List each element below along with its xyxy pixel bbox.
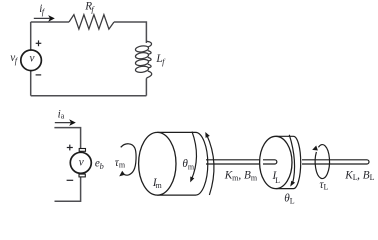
- svg-text:vf: vf: [10, 52, 19, 66]
- svg-text:KL, BL: KL, BL: [344, 169, 374, 182]
- svg-text:τm: τm: [115, 157, 126, 170]
- wire field left top: [30, 22, 32, 50]
- wire field bottom: [31, 95, 147, 97]
- wire armature bottom lead: [55, 176, 81, 201]
- svg-text:θL: θL: [284, 192, 295, 205]
- wire field right bottom: [145, 79, 147, 96]
- torque arrow tau_m: [119, 144, 136, 177]
- plus sign field: [36, 40, 42, 46]
- current arrow i_f: [34, 15, 55, 22]
- svg-text:if: if: [39, 3, 45, 17]
- svg-text:v: v: [30, 52, 35, 64]
- rotation arrow at load disc: [289, 135, 295, 187]
- svg-text:ia: ia: [58, 108, 65, 120]
- torque arrow tau_L: [312, 145, 329, 179]
- motor shaft end cap inside load: [263, 160, 277, 164]
- motor back-emf source e_b: [70, 152, 91, 173]
- load inertia disc I_L: [260, 136, 301, 188]
- angle arrow theta_m: [190, 132, 196, 183]
- motor cylinder right rim: [196, 132, 208, 195]
- minus sign field: [36, 74, 42, 76]
- load shaft K_L B_L: [302, 160, 369, 164]
- brush terminal bottom: [79, 174, 85, 177]
- svg-text:v: v: [79, 157, 84, 169]
- voltage source v_f: [21, 50, 42, 71]
- minus sign armature: [67, 179, 74, 181]
- resistor R_f: [69, 15, 114, 29]
- load disc right rim: [294, 136, 301, 188]
- wire field left bottom: [30, 71, 32, 96]
- motor inertia cylinder I_m: [139, 132, 208, 195]
- wire field top right segment: [114, 22, 146, 43]
- wire armature top lead: [54, 128, 80, 149]
- motor shaft K_m B_m: [206, 160, 277, 164]
- svg-text:τL: τL: [320, 179, 329, 191]
- svg-text:Rf: Rf: [84, 1, 95, 15]
- plus sign armature: [67, 145, 73, 151]
- rotation arrow at motor shaft: [205, 132, 214, 195]
- svg-text:Lf: Lf: [155, 53, 166, 67]
- current arrow i_a: [55, 119, 76, 126]
- wire field top left segment: [31, 21, 69, 23]
- svg-text:Km, Bm: Km, Bm: [224, 170, 258, 183]
- brush terminal top: [79, 149, 85, 152]
- svg-text:eb: eb: [95, 158, 104, 172]
- inductor L_f: [135, 41, 152, 78]
